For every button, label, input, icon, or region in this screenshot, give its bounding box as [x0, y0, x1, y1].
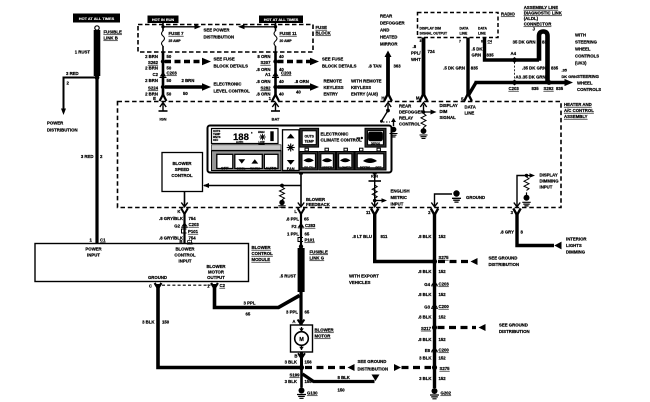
svg-text:ASSEMBLY LINE: ASSEMBLY LINE: [524, 5, 559, 10]
svg-text:GROUND: GROUND: [148, 275, 167, 280]
svg-text:S275: S275: [440, 366, 451, 371]
svg-text:2 BRN: 2 BRN: [145, 54, 158, 59]
radio dashed box: [418, 13, 499, 38]
wire .8 LT BLU 811 (terminal 11): [375, 214, 433, 262]
blower control module box: [35, 244, 249, 282]
svg-text:SIGNAL OUTPUT: SIGNAL OUTPUT: [420, 32, 449, 36]
svg-text:2 BRN: 2 BRN: [145, 66, 158, 71]
svg-text:DEFRS: DEFRS: [360, 166, 370, 170]
fuse F7 symbol: [162, 31, 165, 46]
svg-text:KEYLESS: KEYLESS: [324, 85, 344, 90]
wire 3 RED main vertical: [95, 76, 98, 244]
svg-text:FUSE 11: FUSE 11: [280, 31, 298, 36]
wire blower motor output 3 PPL 65: [215, 284, 300, 308]
button LOWER: [337, 152, 355, 171]
svg-text:WHEEL: WHEEL: [577, 81, 593, 86]
FAN column: [283, 130, 300, 171]
wire fuse7 top stub: [162, 23, 164, 31]
svg-text:BLOWER: BLOWER: [175, 247, 195, 252]
wire arrow to SEE POWER DISTRIBUTION (left): [163, 26, 196, 28]
gray strip: [212, 145, 282, 150]
svg-text:3 PPL: 3 PPL: [244, 301, 256, 306]
wire dashed arrow SEE FUSE BLOCK DETAILS (left): [165, 60, 203, 63]
svg-text:DEFOGGER: DEFOGGER: [380, 21, 405, 26]
svg-text:STEERING: STEERING: [575, 40, 598, 45]
arrow to steering wheel controls: [565, 79, 574, 86]
svg-text:INPUT: INPUT: [540, 185, 553, 190]
fuse block dashed box: [138, 25, 313, 53]
see ground distribution (upper): [438, 260, 468, 263]
display window: [212, 129, 279, 144]
svg-text:DEF: DEF: [376, 166, 382, 170]
svg-text:INPUT: INPUT: [87, 253, 100, 258]
svg-text:65: 65: [305, 232, 310, 237]
svg-text:.35: .35: [562, 68, 568, 73]
svg-text:ENTRY (AU8): ENTRY (AU8): [351, 92, 379, 97]
svg-text:SEE FUSE: SEE FUSE: [322, 57, 343, 62]
svg-text:FUSIBLE: FUSIBLE: [104, 30, 123, 35]
svg-text:AUTO: AUTO: [236, 140, 243, 144]
svg-text:A1: A1: [265, 72, 271, 77]
svg-text:7: 7: [459, 40, 461, 44]
svg-text:50: 50: [167, 78, 172, 83]
svg-text:.8 GRY: .8 GRY: [500, 230, 514, 235]
svg-text:DIMMING: DIMMING: [540, 179, 560, 184]
svg-text:HOT AT ALL TIMES: HOT AT ALL TIMES: [264, 18, 299, 22]
svg-text:35 DK GRN: 35 DK GRN: [513, 40, 536, 45]
wire BSC output down to terminal K: [184, 192, 186, 207]
svg-text:A/C CONTROL: A/C CONTROL: [564, 108, 594, 113]
svg-text:REAR: REAR: [399, 104, 412, 109]
wire branch diagonal to A3 line: [468, 83, 476, 97]
svg-text:CONTROL: CONTROL: [252, 251, 274, 256]
svg-text:OFF: OFF: [213, 138, 219, 142]
svg-text:WITH REMOTE: WITH REMOTE: [351, 79, 382, 84]
terminal C: [155, 283, 162, 289]
svg-text:WHEEL: WHEEL: [575, 47, 591, 52]
svg-text:SEE GROUND: SEE GROUND: [358, 359, 387, 364]
svg-text:.8 GRY/BLK: .8 GRY/BLK: [159, 216, 184, 221]
fusible link B top terminal: [95, 26, 99, 30]
button OFF: [217, 154, 233, 168]
svg-text:GROUND: GROUND: [466, 195, 485, 200]
svg-text:C1: C1: [100, 238, 106, 243]
svg-text:724: 724: [428, 49, 436, 54]
fuse F11 symbol: [274, 31, 277, 46]
svg-text:152: 152: [439, 292, 447, 297]
svg-text:MOTOR: MOTOR: [208, 270, 225, 275]
svg-text:E8: E8: [425, 348, 431, 353]
svg-text:S224: S224: [148, 86, 159, 91]
svg-text:2: 2: [100, 154, 103, 159]
svg-text:DISPLAY DIM: DISPLAY DIM: [420, 27, 442, 31]
svg-text:F2: F2: [291, 224, 297, 229]
button COOL/WARM: [235, 154, 262, 168]
svg-text:835: 835: [487, 53, 495, 58]
svg-text:CONTROL: CONTROL: [399, 122, 421, 127]
label HOT AT ALL TIMES (left): [73, 14, 120, 23]
svg-text:.8 BLK: .8 BLK: [418, 337, 433, 342]
svg-text:OFF: OFF: [221, 165, 229, 170]
svg-text:DIM: DIM: [440, 109, 448, 114]
svg-text:BLOWER: BLOWER: [172, 161, 192, 166]
svg-text:.8 ORN: .8 ORN: [295, 79, 309, 84]
fusible link G: [298, 248, 305, 292]
svg-text:REAR: REAR: [380, 14, 393, 19]
svg-text:.8 ORN: .8 ORN: [256, 79, 270, 84]
svg-text:DIAGNOSTIC LINK: DIAGNOSTIC LINK: [524, 11, 563, 16]
connector line C203 shared: [514, 62, 516, 80]
wire dashed arrow SEE FUSE BLOCK DETAILS (right): [278, 60, 312, 63]
wire .8 GRY/BLK 754 (K to module): [183, 212, 185, 244]
svg-text:S275: S275: [439, 255, 450, 260]
svg-text:FUSE: FUSE: [316, 25, 328, 30]
svg-text:835: 835: [551, 66, 559, 71]
svg-text:CONTROLS: CONTROLS: [577, 87, 601, 92]
svg-text:C203: C203: [281, 71, 292, 76]
svg-text:RADIO: RADIO: [501, 12, 516, 17]
svg-text:C203: C203: [439, 282, 450, 287]
wire C4 leg down and A4 line: [485, 38, 540, 61]
svg-text:FUSIBLE: FUSIBLE: [310, 250, 329, 255]
svg-text:CONNECTOR: CONNECTOR: [524, 22, 553, 27]
svg-text:CONTROL: CONTROL: [171, 173, 193, 178]
wire 8 BLK 150 branch: [303, 374, 375, 382]
svg-text:LOW: LOW: [259, 140, 266, 144]
svg-text:C203: C203: [509, 86, 520, 91]
svg-text:DISTRIBUTION: DISTRIBUTION: [358, 367, 389, 372]
wire 2 BRN 50 from fuse 7: [162, 52, 165, 96]
wire to ground G130: [300, 368, 303, 388]
label HOT AT ALL TIMES (right): [259, 16, 303, 24]
svg-text:BLOWER: BLOWER: [206, 264, 226, 269]
button REAR DEFOG: [365, 128, 386, 147]
splice S292 on A3 line: [547, 80, 552, 85]
svg-text:SIGNAL: SIGNAL: [440, 115, 457, 120]
ground G202: [432, 388, 438, 394]
svg-text:.8: .8: [413, 44, 417, 49]
terminal ticks: [305, 148, 380, 151]
wire .5 DK GRN 835 data line (to terminal 5): [466, 38, 469, 95]
svg-text:STEERING: STEERING: [577, 74, 600, 79]
svg-text:LINE: LINE: [478, 32, 486, 36]
button BILEV: [300, 152, 318, 171]
svg-text:SPEED: SPEED: [175, 167, 190, 172]
svg-text:FEEDBACK: FEEDBACK: [306, 202, 331, 207]
label HOT IN RUN: [148, 16, 179, 24]
svg-text:2: 2: [428, 210, 431, 215]
svg-text:835: 835: [556, 86, 564, 91]
node + resistor to ground: [280, 184, 284, 188]
svg-text:150: 150: [338, 388, 346, 393]
svg-text:156: 156: [305, 360, 313, 365]
svg-text:.8 BLK: .8 BLK: [418, 292, 433, 297]
svg-text:(UK3): (UK3): [575, 61, 587, 66]
terminal K (bottom edge): [181, 203, 187, 207]
svg-text:C203: C203: [189, 222, 200, 227]
wire blower feedback vertical: [300, 173, 302, 207]
svg-text:ENTRY: ENTRY: [324, 92, 339, 97]
terminal 3: [514, 203, 520, 207]
svg-text:20 AMP: 20 AMP: [280, 39, 293, 43]
splice S199: [299, 365, 304, 370]
wire .8 GRY 8 (terminal 3) interior lights dimming: [517, 214, 554, 246]
svg-text:DATA: DATA: [465, 105, 476, 110]
svg-text:CLIMATE CONTROL: CLIMATE CONTROL: [321, 138, 363, 143]
svg-text:11: 11: [366, 210, 371, 215]
groups appended below: [47, 14, 122, 244]
svg-text:K: K: [177, 209, 181, 214]
svg-text:754: 754: [189, 216, 197, 221]
terminal L: [298, 203, 304, 207]
svg-text:AUTO: AUTO: [266, 165, 277, 170]
wire link G to motor, joined by 3 PPL: [299, 292, 302, 325]
rear defogger relay control circuit: [385, 103, 391, 107]
svg-text:INTERIOR: INTERIOR: [566, 237, 587, 242]
svg-text:WITH: WITH: [575, 33, 586, 38]
svg-text:2 BRN: 2 BRN: [182, 78, 195, 83]
svg-text:POWER: POWER: [85, 247, 102, 252]
svg-text:DISPLAY: DISPLAY: [440, 103, 458, 108]
svg-text:S199: S199: [289, 373, 300, 378]
svg-text:BLOCK: BLOCK: [316, 31, 332, 36]
svg-text:RELAY: RELAY: [399, 116, 413, 121]
svg-text:MIRROR: MIRROR: [380, 42, 398, 47]
svg-text:M: M: [416, 96, 420, 101]
splice S275 (upper): [432, 259, 437, 264]
svg-text:8 BLK: 8 BLK: [338, 375, 351, 380]
svg-text:8: 8: [521, 230, 524, 235]
svg-text:(ALDL): (ALDL): [524, 16, 539, 21]
svg-text:811: 811: [381, 234, 389, 239]
svg-text:.8 LT BLU: .8 LT BLU: [352, 234, 372, 239]
svg-text:BLOCK DETAILS: BLOCK DETAILS: [214, 64, 249, 69]
svg-text:150: 150: [162, 320, 170, 325]
svg-text:ELECTRONIC: ELECTRONIC: [321, 132, 349, 137]
svg-text:LIGHTS: LIGHTS: [566, 243, 582, 248]
svg-text:DATA: DATA: [460, 27, 469, 31]
svg-text:.5 DK: .5 DK: [472, 47, 484, 52]
svg-text:S292: S292: [544, 86, 555, 91]
svg-text:G2: G2: [174, 224, 180, 229]
svg-text:1 PPL: 1 PPL: [287, 232, 299, 237]
svg-text:P101: P101: [305, 238, 316, 243]
svg-text:DATA: DATA: [478, 27, 487, 31]
svg-text:152: 152: [439, 337, 447, 342]
svg-text:3 RED: 3 RED: [66, 71, 79, 76]
svg-text:C203: C203: [167, 71, 178, 76]
wire arrow ELECTRONIC LEVEL CONTROL: [165, 85, 204, 88]
svg-text:3: 3: [511, 210, 514, 215]
svg-text:METRIC: METRIC: [391, 195, 407, 200]
svg-text:1: 1: [269, 96, 272, 101]
svg-text:6: 6: [481, 40, 483, 44]
wire BSC to blower feedback node: [204, 185, 301, 187]
svg-text:25 AMP: 25 AMP: [169, 39, 182, 43]
svg-text:VEHICLES: VEHICLES: [349, 280, 371, 285]
splice S207: [273, 59, 277, 63]
grommet P101: [298, 238, 303, 242]
svg-text:J: J: [533, 27, 536, 32]
svg-text:WITH EXPORT: WITH EXPORT: [349, 274, 379, 279]
svg-text:DISTRIBUTION: DISTRIBUTION: [47, 128, 78, 133]
display dimming input circuit: [517, 176, 527, 207]
wire arrow from fuse 11 to SEE POWER DISTRIBUTION: [243, 26, 276, 28]
svg-text:OUTS: OUTS: [304, 134, 314, 138]
blower speed control box: [162, 153, 203, 192]
svg-text:DEFOG: DEFOG: [371, 141, 380, 145]
svg-text:INPUT: INPUT: [179, 259, 192, 264]
wire module ground 3 BLK 150: [158, 284, 302, 368]
display dim signal circuit: [420, 103, 426, 107]
svg-text:50: 50: [167, 92, 172, 97]
heater and A/C control assembly dashed box: [118, 102, 562, 208]
node at fuse 7 top: [161, 25, 164, 28]
svg-text:KEYLESS: KEYLESS: [351, 85, 371, 90]
svg-text:835: 835: [542, 40, 550, 45]
svg-text:L: L: [294, 209, 297, 214]
svg-text:S217: S217: [421, 326, 432, 331]
connector G2 C203: [182, 222, 188, 227]
connector G3 C200: [431, 303, 437, 308]
connector A1 C203: [272, 72, 278, 77]
switch arm: [382, 111, 389, 122]
wire .8 PPL 65 (L to fusible link G): [300, 212, 302, 247]
wire .8 TAN 363: [385, 51, 392, 58]
svg-text:LEVEL CONTROL: LEVEL CONTROL: [214, 89, 251, 94]
svg-text:C2: C2: [220, 283, 226, 288]
resistor to ground: [421, 114, 426, 128]
svg-text:.8 BLK: .8 BLK: [418, 315, 433, 320]
terminal 11: [372, 203, 378, 207]
svg-text:A: A: [292, 319, 295, 324]
button bezel lower-left: [212, 151, 282, 171]
svg-text:.35 DK GRN: .35 DK GRN: [522, 75, 546, 80]
svg-text:A4: A4: [511, 51, 517, 56]
svg-text:MODULE: MODULE: [252, 257, 271, 262]
svg-text:SEE POWER: SEE POWER: [204, 28, 231, 33]
svg-text:BLOWER: BLOWER: [252, 245, 272, 250]
splice S224: [161, 85, 165, 89]
svg-text:FAN: FAN: [287, 166, 295, 171]
grommet P101: [182, 229, 187, 233]
svg-text:2: 2: [67, 81, 70, 86]
svg-text:LINE: LINE: [465, 111, 475, 116]
svg-text:BAT: BAT: [272, 117, 280, 122]
blower motor B1: [291, 325, 313, 352]
svg-text:1 RUST: 1 RUST: [75, 50, 91, 55]
svg-text:G3: G3: [424, 305, 430, 310]
ground G130: [299, 388, 305, 394]
svg-text:.8 TAN: .8 TAN: [368, 64, 381, 69]
wire arrow REMOTE KEYLESS ENTRY: [278, 85, 312, 88]
see ground distribution (S217): [438, 326, 477, 329]
button AUTO: [264, 154, 278, 168]
ground circuit (terminal 2): [435, 194, 453, 207]
svg-text:P101: P101: [188, 229, 199, 234]
svg-text:DIMMING: DIMMING: [566, 250, 586, 255]
svg-text:PPL/: PPL/: [411, 51, 421, 56]
svg-text:AND: AND: [380, 28, 389, 33]
svg-text:50: 50: [183, 91, 188, 96]
node junction at fusible link bottom: [95, 75, 100, 80]
see ground distribution (lower center): [305, 366, 345, 369]
svg-text:S262: S262: [148, 60, 159, 65]
svg-text:HIGH: HIGH: [258, 130, 265, 134]
svg-text:CONTROL: CONTROL: [174, 253, 196, 258]
svg-text:50: 50: [167, 54, 172, 59]
connector C2 C203: [160, 72, 166, 77]
svg-text:3 BLK: 3 BLK: [142, 320, 155, 325]
svg-text:40: 40: [279, 92, 284, 97]
svg-text:DISTRIBUTION: DISTRIBUTION: [499, 329, 530, 334]
svg-text:.8 BLK: .8 BLK: [418, 269, 433, 274]
svg-text:3 PPL: 3 PPL: [286, 310, 298, 315]
svg-text:3 BLK: 3 BLK: [285, 360, 298, 365]
svg-text:3 BLK: 3 BLK: [285, 379, 298, 384]
svg-text:TEMP: TEMP: [304, 139, 314, 143]
svg-text:DISTRIBUTION: DISTRIBUTION: [204, 35, 235, 40]
svg-text:.5 RUST: .5 RUST: [280, 274, 297, 279]
svg-text:2 BRN: 2 BRN: [145, 78, 158, 83]
wire 3 RED branch to power distribution: [64, 78, 98, 111]
svg-text:SEE GROUND: SEE GROUND: [499, 323, 528, 328]
svg-text:BLOCK DETAILS: BLOCK DETAILS: [322, 64, 357, 69]
splice S275 (lower): [432, 365, 437, 370]
svg-text:3 RED: 3 RED: [81, 154, 94, 159]
splice S282: [273, 85, 277, 89]
svg-text:.8 BLK: .8 BLK: [418, 234, 433, 239]
splice S217: [432, 325, 437, 330]
svg-text:1: 1: [207, 284, 210, 289]
wire A3 line .35 DK GRN 835: [475, 81, 566, 84]
svg-text:8 ORN: 8 ORN: [257, 54, 270, 59]
svg-text:.8 PPL: .8 PPL: [286, 217, 300, 222]
wire ground column (terminal 2): [433, 214, 436, 389]
svg-text:DK GRN: DK GRN: [562, 74, 578, 79]
node at fuse 11 top: [274, 25, 277, 28]
internal dashed link on bottom edge: [162, 284, 211, 286]
svg-text:.35 DK GRN: .35 DK GRN: [522, 66, 546, 71]
terminal 1 C2: [211, 283, 218, 289]
svg-text:SEE GROUND: SEE GROUND: [489, 256, 518, 261]
svg-text:IGN: IGN: [160, 117, 167, 122]
svg-text:M: M: [299, 337, 304, 343]
svg-text:FUSE 7: FUSE 7: [169, 31, 185, 36]
button UPPER: [319, 152, 336, 171]
svg-text:B: B: [294, 354, 297, 359]
svg-text:S282: S282: [260, 86, 271, 91]
svg-text:COOL: COOL: [237, 166, 246, 170]
svg-text:REMOTE: REMOTE: [324, 79, 343, 84]
svg-text:.5 DK GRN: .5 DK GRN: [443, 66, 465, 71]
svg-text:C: C: [149, 284, 152, 289]
svg-text:2 BRN: 2 BRN: [145, 92, 158, 97]
svg-text:BLOWER: BLOWER: [315, 328, 335, 333]
svg-text:G130: G130: [307, 391, 318, 396]
connector G4 C203: [431, 281, 437, 286]
svg-text:WARM: WARM: [250, 166, 260, 170]
svg-text:C283: C283: [305, 223, 316, 228]
svg-text:POWER: POWER: [47, 121, 64, 126]
svg-text:HOT IN RUN: HOT IN RUN: [152, 18, 174, 22]
svg-text:UPPER: UPPER: [322, 166, 333, 170]
svg-text:3 BLK: 3 BLK: [419, 376, 432, 381]
svg-text:152: 152: [439, 376, 447, 381]
svg-text:C200: C200: [439, 304, 450, 309]
svg-text:363: 363: [394, 64, 402, 69]
svg-text:3 BLK: 3 BLK: [419, 356, 432, 361]
